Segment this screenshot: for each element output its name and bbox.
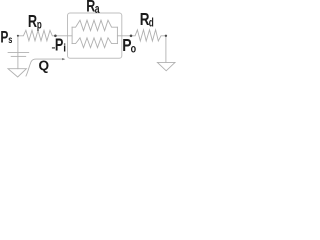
svg-text:a: a bbox=[95, 1, 100, 16]
svg-text:i: i bbox=[63, 43, 66, 55]
svg-text:p: p bbox=[37, 18, 42, 32]
svg-text:Q: Q bbox=[39, 58, 50, 73]
svg-text:P: P bbox=[0, 28, 8, 47]
svg-text:o: o bbox=[131, 41, 137, 55]
svg-text:s: s bbox=[8, 34, 12, 46]
svg-text:d: d bbox=[149, 16, 154, 30]
